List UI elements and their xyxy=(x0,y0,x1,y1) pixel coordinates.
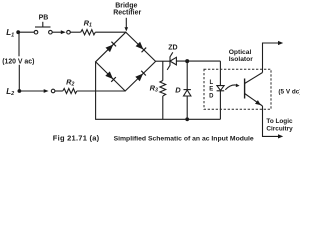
svg-text:Fig 21.71 (a): Fig 21.71 (a) xyxy=(53,134,100,143)
svg-text:L2: L2 xyxy=(6,87,14,97)
svg-text:R2: R2 xyxy=(66,77,74,87)
svg-text:Simplified Schematic of an ac: Simplified Schematic of an ac Input Modu… xyxy=(114,136,254,143)
svg-text:Isolator: Isolator xyxy=(229,56,254,63)
svg-text:R3: R3 xyxy=(150,83,158,93)
svg-text:L: L xyxy=(209,80,213,86)
svg-text:L1: L1 xyxy=(6,28,14,38)
svg-text:E: E xyxy=(209,87,213,93)
svg-text:(120 V ac): (120 V ac) xyxy=(2,58,34,65)
svg-text:D: D xyxy=(175,86,181,95)
svg-text:Rectifier: Rectifier xyxy=(113,10,141,17)
svg-text:D: D xyxy=(209,93,214,99)
svg-text:R1: R1 xyxy=(84,19,92,29)
svg-text:To Logic: To Logic xyxy=(266,118,293,125)
svg-text:ZD: ZD xyxy=(168,44,177,51)
svg-text:(5 V dc): (5 V dc) xyxy=(278,88,300,95)
svg-text:Circuitry: Circuitry xyxy=(266,126,293,133)
svg-text:PB: PB xyxy=(39,14,49,21)
svg-text:Optical: Optical xyxy=(229,49,252,56)
